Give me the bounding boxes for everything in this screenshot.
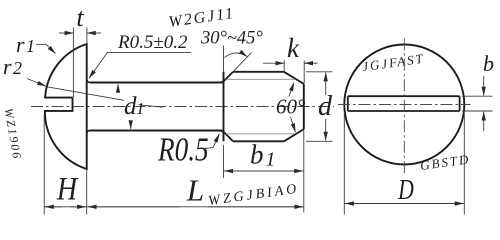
shank bottom edge <box>90 130 222 132</box>
dimension t extension right <box>86 28 88 45</box>
svg-text:D: D <box>397 173 414 206</box>
svg-text:WZGJBIAO: WZGJBIAO <box>207 182 300 210</box>
svg-text:30°~45°: 30°~45° <box>200 29 263 49</box>
watermark text 3 <box>419 151 471 173</box>
svg-text:1: 1 <box>136 99 145 118</box>
60° leader down <box>291 117 296 132</box>
dimension t arrows <box>59 32 73 34</box>
svg-text:GBSTD: GBSTD <box>419 151 471 173</box>
dimension b arrows <box>483 76 485 96</box>
svg-text:R0.5±0.2: R0.5±0.2 <box>117 32 188 53</box>
shank top edge <box>90 82 222 84</box>
under-head fillet top <box>87 79 90 82</box>
leader r1 <box>36 44 56 53</box>
dimension d arrows <box>325 73 327 95</box>
flare cone bottom <box>220 131 233 142</box>
end view slot top edge <box>348 95 460 97</box>
dimension k arrows <box>263 62 284 64</box>
dimension k extension left <box>283 61 285 72</box>
svg-text:d: d <box>318 91 333 122</box>
watermark text 2 <box>361 51 425 75</box>
thread minor line bottom <box>226 133 294 135</box>
svg-text:1: 1 <box>26 36 35 56</box>
svg-text:L: L <box>186 173 204 208</box>
end view horizontal centerline <box>338 104 471 106</box>
d1 arrow up <box>117 84 119 92</box>
flare cone top <box>220 72 233 83</box>
end view circle <box>344 45 464 165</box>
main axis centerline <box>31 106 334 108</box>
leader R0.5 <box>205 134 219 149</box>
dimension d extension top <box>306 71 333 73</box>
point chamfer bottom <box>284 129 304 141</box>
head outline (dome, slot notch, right face) <box>45 44 87 169</box>
dimension H extension left <box>43 115 45 215</box>
dimension d extension bottom <box>306 140 333 142</box>
dimension b1 line with arrows <box>224 170 303 172</box>
svg-text:b: b <box>250 140 264 170</box>
svg-text:t: t <box>76 3 84 32</box>
thread start face line <box>223 72 225 142</box>
dimension L line with arrows <box>87 206 303 208</box>
label d1 with slanted leader <box>47 87 124 101</box>
svg-text:2: 2 <box>13 58 22 78</box>
dimension H line with arrows <box>45 206 87 208</box>
thread minor line top <box>226 78 294 80</box>
svg-text:H: H <box>56 170 79 207</box>
svg-text:60°: 60° <box>276 95 306 119</box>
svg-text:k: k <box>287 33 300 63</box>
dimension b extension bottom <box>462 110 493 112</box>
dimension D extension right <box>463 112 465 215</box>
svg-text:W2GJ11: W2GJ11 <box>168 5 237 31</box>
leader r2 <box>27 79 46 87</box>
end view slot left cap <box>347 96 349 111</box>
end view vertical centerline <box>403 38 405 175</box>
svg-text:1: 1 <box>266 149 276 171</box>
svg-text:R0.5: R0.5 <box>157 131 208 169</box>
svg-text:r: r <box>3 54 12 79</box>
dimension D extension left <box>343 112 345 215</box>
thread section top edge <box>233 71 284 73</box>
point chamfer top <box>284 72 304 84</box>
thread section bottom edge <box>233 140 284 142</box>
dimension k extension right <box>303 61 305 84</box>
svg-text:WZ1906: WZ1906 <box>2 107 25 161</box>
end view slot right cap <box>459 96 461 111</box>
dimension t extension left <box>72 28 74 98</box>
watermark text 1 <box>207 182 300 210</box>
svg-text:b: b <box>483 51 494 76</box>
cone extension line <box>233 53 252 72</box>
under-head fillet bottom <box>87 131 90 134</box>
dimension D line with arrows <box>345 203 465 205</box>
point face extension down <box>303 129 305 212</box>
watermark text 4 <box>2 107 25 161</box>
angle reference vertical line <box>223 46 225 72</box>
dimension b extension top <box>462 95 493 97</box>
end view slot bottom edge <box>348 110 460 112</box>
svg-text:r: r <box>16 32 25 57</box>
angle arc with arrow <box>225 53 248 58</box>
head face extension down <box>86 169 88 215</box>
d1 arrow down <box>130 122 132 130</box>
leader R0.5±0.2 <box>89 52 191 78</box>
60° leader up <box>289 83 294 97</box>
dimension b1 extension left <box>223 145 225 178</box>
point end face <box>303 84 305 129</box>
